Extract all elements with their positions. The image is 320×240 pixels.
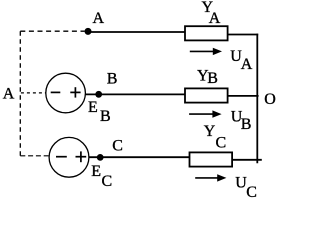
node A <box>85 28 92 35</box>
svg-text:B: B <box>107 70 118 87</box>
svg-text:A: A <box>3 86 15 103</box>
arrow U_A <box>190 50 215 52</box>
source E_C (circle with - +) <box>49 137 89 177</box>
wire: source E_B to admittance YB <box>85 93 185 95</box>
wire: left neutral bus (dashed vertical) <box>19 31 21 156</box>
wire: YC to right bus <box>233 159 262 161</box>
svg-text:A: A <box>93 10 105 27</box>
wire: source E_C to admittance YC <box>89 156 189 158</box>
wire: YA to right bus <box>228 34 258 36</box>
wire: right bus down to node O and below <box>256 34 258 164</box>
wire: dashed segment from bus to node A <box>20 30 84 32</box>
wire: YB to right bus (node O) <box>228 95 258 97</box>
wire: node A to admittance YA <box>88 31 185 33</box>
arrow U_C <box>195 177 219 179</box>
svg-text:E: E <box>91 163 101 180</box>
svg-text:B: B <box>241 116 252 133</box>
admittance Y_A (box) <box>185 26 228 40</box>
arrow U_B <box>189 113 214 115</box>
svg-text:Y: Y <box>204 123 216 140</box>
svg-text:C: C <box>112 138 123 155</box>
wire: dashed link from bus to source E_C <box>20 155 49 157</box>
svg-text:C: C <box>216 135 227 152</box>
svg-text:A: A <box>209 10 221 27</box>
svg-text:B: B <box>100 108 111 125</box>
svg-text:O: O <box>264 91 276 108</box>
admittance Y_C (box) <box>190 152 233 166</box>
svg-text:A: A <box>241 56 253 73</box>
svg-text:C: C <box>102 173 113 190</box>
admittance Y_B (box) <box>185 88 228 102</box>
node B <box>95 91 102 98</box>
wire: dotted link from bus to source E_B <box>21 92 46 94</box>
source E_B (circle with - +) <box>46 73 86 113</box>
node C <box>97 154 104 161</box>
svg-text:E: E <box>88 99 98 116</box>
svg-text:B: B <box>207 70 218 87</box>
svg-text:C: C <box>246 184 257 201</box>
